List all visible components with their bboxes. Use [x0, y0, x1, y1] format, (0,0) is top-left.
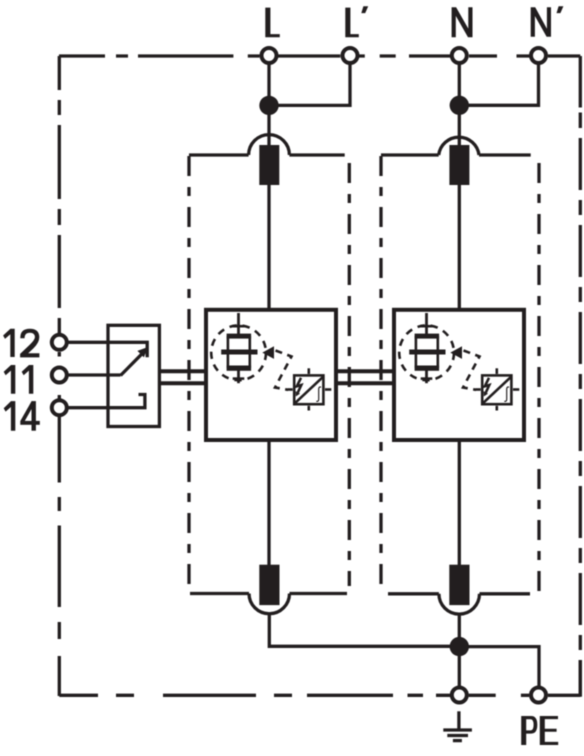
trigger box left: integral [316, 386, 321, 402]
wire bottom L to PE bus [269, 614, 459, 647]
spark gap right: dashed circle [399, 325, 454, 380]
terminal ground [452, 688, 467, 703]
fuse bottom L [259, 565, 279, 605]
fuse top N [449, 145, 469, 185]
wire SPD right bottom [458, 440, 461, 565]
terminal 14 [52, 400, 67, 415]
spark gap left: lead [233, 313, 245, 383]
node junction PE [450, 637, 469, 656]
module box right bottom [388, 594, 530, 614]
label PE [521, 716, 537, 745]
frame left [58, 56, 61, 696]
terminal 12 [52, 335, 67, 350]
terminal 11 [52, 368, 67, 383]
trigger dashes left [275, 351, 292, 390]
trigger box right [476, 368, 520, 410]
label 12 [3, 329, 15, 357]
spark gap left: electrodes [221, 334, 257, 371]
spark gap left: trigger arrow [262, 346, 274, 359]
node junction N [450, 96, 469, 115]
trigger box right: bolt [484, 378, 490, 397]
spark gap left: dashed circle [211, 325, 266, 380]
label L [265, 8, 280, 38]
label N2 [531, 7, 551, 37]
frame top (dash-dot device boundary) [59, 54, 580, 57]
label L2 [345, 8, 359, 38]
wire SPD left bottom [267, 440, 270, 565]
wire N' drop [459, 64, 538, 105]
switch box K1 [108, 325, 159, 426]
wire fuse N to box [458, 184, 461, 310]
wire fuse L to box [267, 184, 270, 310]
terminal L [262, 48, 277, 63]
module box left bottom [190, 594, 347, 614]
wire N drop [458, 64, 461, 146]
label N prime [557, 6, 564, 13]
trigger dashes right [463, 351, 480, 390]
module box left dashed edges [189, 156, 349, 586]
spark gap right: lead [421, 313, 433, 383]
terminal N [452, 48, 467, 63]
mechanical link left [159, 371, 206, 383]
label N [452, 7, 473, 37]
switch blade arrowhead [137, 347, 148, 357]
trigger box left: bolt [296, 378, 302, 397]
disconnector arc N top [381, 137, 531, 155]
frame bottom [59, 660, 580, 697]
SPD box right (U2) [394, 310, 524, 440]
fuse top L [259, 145, 279, 185]
terminal L' [343, 48, 358, 63]
switch blade [121, 354, 143, 376]
mechanical link middle [336, 371, 394, 383]
wire L' drop [269, 64, 350, 105]
fuse bottom N [449, 565, 469, 605]
module box right dashed edges [381, 156, 539, 593]
label 11 [4, 365, 16, 394]
terminal N' [531, 48, 546, 63]
contact 12 wire [68, 342, 148, 357]
node junction L [259, 96, 278, 115]
label 14 [4, 401, 16, 431]
contact 14 wire [68, 395, 145, 408]
wire bottom N to ground [458, 614, 461, 686]
SPD box left (U1) [206, 310, 336, 440]
disconnector arc L top [189, 135, 345, 155]
spark gap right: electrodes [409, 334, 445, 371]
contact 11 wire [68, 373, 121, 376]
wire junction to PE terminal [459, 647, 539, 686]
trigger box right: integral [504, 386, 509, 402]
wire L drop [267, 64, 270, 146]
trigger box left [288, 368, 332, 410]
frame right [579, 56, 582, 696]
ground symbol [443, 711, 472, 740]
spark gap right: trigger arrow [450, 346, 462, 359]
label L prime [361, 6, 368, 13]
terminal PE [531, 688, 546, 703]
